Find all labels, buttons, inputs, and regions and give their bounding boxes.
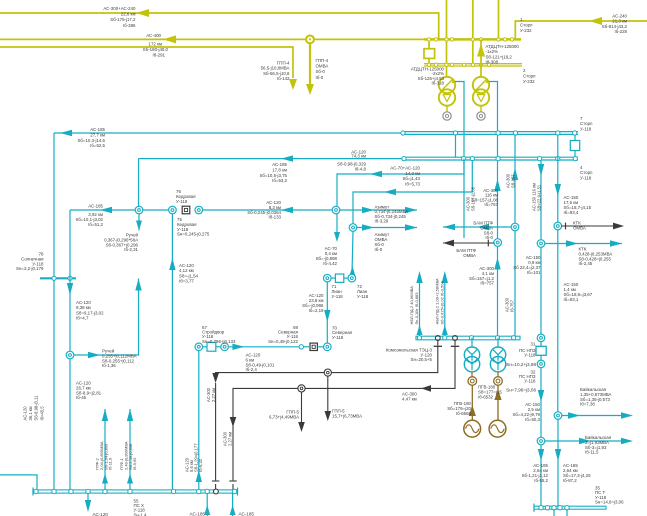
arrow x541 down [538,164,544,176]
wire PTF-1 feeder [129,409,131,490]
wire tie busbar C1 to C2 x455 [455,134,457,157]
arrow x139 down [136,221,142,231]
svg-text:22,6 км: 22,6 км [121,12,136,17]
svg-text:Sб-175-j17,2: Sб-175-j17,2 [110,17,136,22]
end tick bottom bus left [32,488,34,496]
wire black path B [233,346,455,392]
node Ruchey tap [66,351,74,359]
svg-text:Iб-0: Iб-0 [375,247,383,252]
arrow GPP5 B [298,422,305,432]
arrow Ruchey right [88,352,100,358]
wire BAM PTF cyan line [443,226,511,228]
wire x541 to NPZ [540,247,542,334]
wire GPP5 load B [301,392,303,423]
arrow Baik1 b [621,412,633,418]
svg-text:Iб=5,73: Iб=5,73 [405,181,420,186]
wire x558 to bottom bus [557,419,559,506]
busbar A 220kV (Storozh 1) [424,38,521,41]
wire riser x446 from top [446,0,448,64]
junction circles TEC bus [417,336,421,340]
svg-text:У-118: У-118 [332,294,344,299]
wire x541 to bottom-right bus [540,445,542,507]
svg-text:Iб=50,3: Iб=50,3 [525,417,540,422]
end tick PS T [533,504,535,512]
wire G1 stem [471,385,473,420]
svg-text:У-118: У-118 [580,126,592,131]
svg-text:Iб=53,2: Iб=53,2 [272,178,287,183]
svg-text:172 км: 172 км [149,42,163,47]
arrow Baik2 b [621,438,633,444]
svg-text:Sн=0,796+j0,133: Sн=0,796+j0,133 [202,339,236,344]
node KTK cyan tap [537,240,545,248]
wire x70 feeder [69,210,71,491]
node black switch on bottom bus [214,489,219,494]
arrow BAM cyan a [443,224,455,230]
svg-text:17,8 км: 17,8 км [272,167,287,172]
arrow busbar C2 flow [281,155,293,161]
svg-text:Iб-55,2: Iб-55,2 [534,478,548,483]
wire Azimut1 load [340,209,417,211]
wire black path A [216,346,438,375]
svg-text:Iб-6,32: Iб-6,32 [198,458,203,472]
svg-text:Sб=j1,43: Sб=j1,43 [402,176,420,181]
arrow KTK cyan b [610,240,622,246]
neutral ring G2 [497,372,499,377]
wire left step to edge [0,475,37,490]
svg-text:АС-70+АС-120: АС-70+АС-120 [390,166,420,171]
svg-text:АС-120: АС-120 [93,512,109,516]
svg-text:4,47 км: 4,47 км [402,396,417,401]
transformer GT2 (unit) [497,338,499,348]
wire x139 open end [138,214,140,231]
wire PTF-2 feeder [104,409,106,490]
svg-text:Iб-2,31: Iб-2,31 [124,247,138,252]
svg-text:Iб=3,77: Iб=3,77 [179,279,194,284]
svg-text:Sб-157-j1,08: Sб-157-j1,08 [471,186,476,211]
arrow busbar C1 flow [60,130,72,136]
breaker NPZ box [536,346,546,355]
svg-text:Iб=52,5: Iб=52,5 [90,143,105,148]
svg-text:Iб-386: Iб-386 [123,23,136,28]
arrow x558 down2 [555,449,561,461]
wire BAM PTF black line [443,242,494,244]
busbar C1 110kV left single [54,132,403,134]
wire x497 main tie AC-300 [497,239,499,247]
svg-text:Iб-1,36: Iб-1,36 [102,363,116,368]
svg-text:Сторл: Сторл [520,23,533,28]
stub feeder up x207 [206,493,208,516]
arrow KTK cyan a [566,240,578,246]
svg-text:Iб-87,2: Iб-87,2 [563,478,577,483]
svg-text:Iб=51,2: Iб=51,2 [88,222,103,227]
arrow flow W2 [163,35,176,43]
wire G2 stem [497,385,499,420]
node BAM PTF cyan tap [511,223,519,231]
wire W3 line to GPP-4 (y47) [0,47,293,78]
node Azimut1 tap [332,206,340,214]
arrow KTK black [613,223,624,230]
svg-text:Iб-6568: Iб-6568 [456,411,472,416]
node GPP-4 tap on W2 [306,36,314,44]
node BAM PTF black tap [494,239,502,247]
node GPP5 tap B [298,385,305,392]
svg-text:АС-185: АС-185 [239,512,255,516]
svg-text:У-118: У-118 [176,199,188,204]
arrow x337 down open end [334,232,340,242]
svg-text:У-232: У-232 [523,79,535,84]
arrow Azimut1 b [405,207,417,213]
arrow BAM black [443,240,454,247]
svg-text:Sн=0,49-j0,122: Sн=0,49-j0,122 [268,339,298,344]
arrow x515 up [512,168,518,180]
busbar B 220kV (Storozh 2) double line [424,63,522,65]
arrow pathB left [421,385,431,392]
stub below PS T a [553,509,555,516]
arrow Azimut1 a [362,207,374,213]
svg-text:Sн=2,2-j0,179: Sн=2,2-j0,179 [16,266,44,271]
wire T2 MV tap down to TEC bus [489,82,498,239]
node Kedrovaya right [195,206,203,214]
junction dots busbar B [427,63,430,66]
arrow Ruchey up [135,279,141,291]
arrow x541 down2 [538,390,544,402]
arrow TEC feeder1 [416,271,422,283]
svg-text:Sн-0,1Вт Iб-0,883: Sн-0,1Вт Iб-0,883 [414,292,419,325]
junction dots busbar A [427,38,430,41]
wire Baikalskaya2 load [545,440,630,442]
wire x139 drop from C2 bend [138,159,140,207]
switch tick KTK [565,223,567,230]
wire Azimut2 load [357,227,417,229]
arrow x353 up [349,266,355,276]
neutral ring G1 [471,372,473,377]
svg-text:Iб-9,65: Iб-9,65 [132,457,137,470]
node Stroydvor right [221,343,229,351]
svg-text:Iб=757: Iб=757 [484,202,498,207]
busbar bottom PS X [33,490,238,493]
autotransformer T2 ATDCTN-125000 [473,77,489,93]
arrow PTF-2 [102,409,108,421]
svg-text:Iб=7,38: Iб=7,38 [580,402,595,407]
wire y210 continues east [203,209,332,211]
svg-text:2,27 км: 2,27 км [228,432,233,446]
open switch ticks f2 [451,345,459,347]
svg-text:Iб-142: Iб-142 [277,76,290,81]
svg-text:Sн=10,2+j3,98: Sн=10,2+j3,98 [506,362,536,367]
svg-text:Sб=22,9-j1,51: Sб=22,9-j1,51 [537,184,542,211]
svg-text:Iб=2,19: Iб=2,19 [309,308,324,313]
junction circles busbar C1 [401,131,405,135]
wire x353 down to Lian [352,231,353,274]
svg-text:Sн-1,4: Sн-1,4 [134,512,147,516]
svg-text:Iб-4,8: Iб-4,8 [355,167,367,172]
svg-text:Iб=93,1: Iб=93,1 [564,297,579,302]
arrow BAM cyan b [477,224,489,230]
transformer GT1 (unit) [471,338,473,348]
wire NPZ link [540,342,542,347]
svg-text:31: 31 [530,342,536,347]
svg-text:ОМВА: ОМВА [573,225,586,230]
device Kedrovaya 76 (black box) [182,206,190,214]
busbar C2 double section [404,156,578,158]
breaker Q1 between busbars A,B [428,39,430,48]
device Stroydvor box [207,342,216,351]
wire Ruchey load line [74,279,139,356]
svg-text:АС-400: АС-400 [146,33,161,38]
wire GPP-4 feeder stub [309,43,311,84]
open switch bottom f2 [229,480,236,482]
node GPP5 tap A [324,369,331,376]
arrow PTF-1 [127,409,133,421]
svg-text:Sн=7,96=j3,06: Sн=7,96=j3,06 [506,388,536,393]
wire x216 south [215,383,217,480]
arrow G2 up [494,389,501,400]
busbar C1 double section [403,131,578,133]
svg-text:У-118: У-118 [580,175,592,180]
wire T2 HV feed with up arrow to busbar A [480,39,482,76]
svg-text:АС-185: АС-185 [272,162,287,167]
arrow stair2 left [384,189,396,195]
wire x515 lower [514,231,516,336]
svg-text:АС-185: АС-185 [88,204,103,209]
arrow x541 down3 [538,449,544,461]
busbar Solnechnaya 78 [40,277,76,279]
arrow W3 down [289,79,297,90]
wire x515 tie from C1 [514,134,516,223]
arrow Baik2 a [579,438,591,444]
wire Stroydvor drop to bottom bus [198,351,200,492]
svg-text:Iб-6532: Iб-6532 [478,395,494,400]
svg-text:2,27 км: 2,27 км [211,388,216,402]
svg-text:Sб-0: Sб-0 [316,69,326,74]
node Kedrovaya left [169,206,177,214]
svg-text:Sб-157: Sб-157 [511,174,516,188]
arrow Azimut2 b [405,224,417,230]
wire x497 lower [497,246,499,335]
wire x541 south [540,368,542,438]
svg-text:Iб-318: Iб-318 [431,81,444,86]
wire AC-120 23.8km down [326,282,328,343]
wire x541 AC-150 feeder [540,160,542,240]
wire x558 south [557,230,559,412]
svg-text:Sб-0,625+j0,02 Iб-0,504: Sб-0,625+j0,02 Iб-0,504 [439,281,444,325]
wire link busbar A to line 1 Storozh [515,21,647,39]
junction circles PS T bus [539,506,543,510]
autotransformer T1 ATDCTN-125000 [439,77,455,93]
svg-text:Iб-2,4: Iб-2,4 [246,367,258,372]
arrow Azimut2 a [362,224,374,230]
svg-text:Iб=45,5: Iб=45,5 [39,406,44,421]
arrow x70 down [67,283,73,295]
svg-text:Sн=14,8=j3,06: Sн=14,8=j3,06 [595,500,624,505]
wire GPP5 load A [327,376,329,412]
switch tick BAM black [487,240,489,247]
wire stair2 C2->y192->x353 down [353,160,472,224]
arrow pathB down x233 [230,417,237,427]
arrow stair1 left [370,171,382,177]
svg-text:У-118: У-118 [332,335,344,340]
node NPZ lower [537,360,545,368]
wire Baikalskaya1 load [562,415,630,417]
svg-text:6,73+j4,49МВА: 6,73+j4,49МВА [269,414,299,419]
svg-text:У-118: У-118 [524,353,536,358]
node Lian left [324,274,332,282]
svg-text:Iб=4,7: Iб=4,7 [76,316,89,321]
wire stair1 C2->y174->x337 down [337,159,464,238]
end tick bottom bus right [237,488,239,496]
node small circle y347 [299,345,303,349]
arrow x199 up [196,470,202,482]
node Stroydvor left [195,343,203,351]
ground neutral T1 [446,106,448,112]
wire x54 long feeder from C1 to bottom busbar [53,133,55,491]
wire T1 MV tap to bus C1 [455,82,464,239]
arrow x497 up b [494,258,500,270]
arrow down x327 [324,310,330,322]
svg-text:Sн=0,245-j0,275: Sн=0,245-j0,275 [177,232,210,237]
node Severnaya bullseye [324,343,332,351]
busbar TEC Komsomolskaya [416,336,520,340]
stub TEC black feeder 1 [435,336,440,341]
open switch bottom f1 [212,480,219,482]
svg-text:Sб=10,3-j14,6: Sб=10,3-j14,6 [77,138,105,143]
wire x173 feeder to bottom bus [171,214,173,492]
svg-text:Iб-0: Iб-0 [485,235,493,240]
svg-text:Iб-11,9: Iб-11,9 [108,457,113,470]
svg-text:ГПП-4: ГПП-4 [316,58,329,63]
busbar C2 110kV left single [139,158,405,160]
arrow pathA down at x216 [212,373,219,383]
svg-text:15,7+j6,73МВА: 15,7+j6,73МВА [332,413,362,418]
stub feeder x88 down [87,493,89,501]
generator G2 TGV-180 [489,420,506,437]
svg-text:Iб-228: Iб-228 [614,29,627,34]
svg-text:Iб-757: Iб-757 [510,299,515,312]
arrow y210 left [100,207,112,213]
arrow Baik1 a [568,412,580,418]
svg-text:У-232: У-232 [520,28,532,33]
wire W1 110kV line AC-300+AC-240 (top) [0,13,439,39]
svg-text:Sн=20,5+5: Sн=20,5+5 [411,357,433,362]
ground neutral T2 [480,106,482,112]
busbar bottom-right PS T [534,506,606,509]
junction circles bottom bus [34,489,38,493]
wire KTK black load [562,225,622,227]
svg-text:Iб-4,42: Iб-4,42 [323,261,337,266]
node NPZ upper [537,334,545,342]
node KTK black tap [554,222,562,230]
svg-text:27,7 км: 27,7 км [90,132,105,137]
svg-text:Iб-308: Iб-308 [486,60,499,65]
svg-text:Сторл: Сторл [523,74,536,79]
arrow y347 right [232,344,244,350]
svg-text:74,3 км: 74,3 км [351,154,366,159]
svg-text:Sб-8,98-j3,11: Sб-8,98-j3,11 [34,395,39,421]
svg-text:У-118: У-118 [357,294,369,299]
svg-text:Iб-2,45: Iб-2,45 [579,261,593,266]
node Baikalskaya2 tap [537,437,545,445]
svg-text:Iб-0: Iб-0 [316,75,324,80]
node Azimut2 tap [349,224,357,232]
wire y210 Kedrovaya line [70,209,135,211]
device Severnaya 69 (black box) [310,343,317,350]
svg-text:ОМВА: ОМВА [463,253,476,258]
svg-text:АС-120: АС-120 [23,406,28,421]
svg-text:ОМВА: ОМВА [316,64,329,69]
svg-text:14,3 км: 14,3 км [405,171,420,176]
arrow x173 up [169,258,175,270]
svg-text:Iб-133: Iб-133 [268,215,281,220]
arrow GPP-4 feeder [306,84,314,95]
arrow flow W1 [136,9,149,17]
device Lian box [335,274,343,282]
wire riser x472 [472,0,474,64]
node x139 tap [135,206,143,214]
svg-text:Iб=93,4: Iб=93,4 [564,210,579,215]
stub feeder up x233 [232,493,234,516]
svg-text:Iб-11,5: Iб-11,5 [585,450,599,455]
wire W2 line AC-400 [0,38,424,40]
open switch ticks f1 [434,345,442,347]
arrow G1 up [469,405,476,416]
wire x233 south [232,392,234,480]
wire TEC feeder 2 up [444,282,446,335]
wire y347 east [228,346,299,348]
svg-text:У-118: У-118 [524,379,536,384]
arrow y210 mid left [281,207,293,213]
svg-text:Iб=101: Iб=101 [527,270,541,275]
svg-text:Iб-45: Iб-45 [76,395,87,400]
wire T1 HV feed [446,66,448,77]
wire x558 AC-150 feeder from C1 [557,134,559,222]
node Lian right [348,274,356,282]
svg-text:АС-185: АС-185 [190,512,206,516]
svg-text:Sб=10,5-j3,75: Sб=10,5-j3,75 [259,173,287,178]
bus section box between C1 and C2 [574,134,576,140]
wire TEC feeder 1 up [419,282,421,335]
arrow x558 down [555,184,561,196]
arrow x497 up a [494,179,500,191]
svg-text:Iб-3,29: Iб-3,29 [375,219,389,224]
node Baikalskaya1 tap [554,412,562,420]
generator G1 TGV-180 [464,420,481,437]
arrow line AC-240 [589,17,602,25]
svg-text:36,1 км: 36,1 км [28,406,33,420]
wire riser x498 [498,0,500,39]
stub TEC black feeder 2 [453,336,458,341]
arrow TEC feeder2 [442,271,448,283]
svg-text:АС-185: АС-185 [90,127,105,132]
junction circles busbar C2 [402,157,406,161]
stub below PS T b [566,509,568,516]
svg-text:АС-300+АС-240: АС-300+АС-240 [103,6,136,11]
wire KTK cyan load [545,243,622,245]
arrow GPP5 A [325,411,332,421]
svg-text:Iб=757: Iб=757 [480,281,494,286]
svg-text:Iб-291: Iб-291 [152,53,165,58]
